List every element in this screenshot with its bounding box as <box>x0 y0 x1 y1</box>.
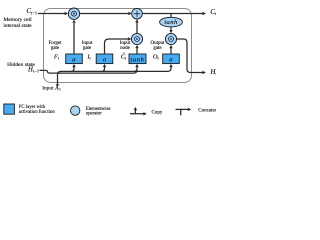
wire input gate box up and right into product <box>105 39 129 54</box>
svg-text:tanh: tanh <box>131 57 145 64</box>
svg-text:gate: gate <box>83 46 92 51</box>
input node FC box (tanh) <box>129 54 146 64</box>
riser into input gate box <box>102 67 105 72</box>
svg-text:Ht: Ht <box>209 68 216 76</box>
svg-text:tanh: tanh <box>164 19 178 26</box>
svg-text:operator: operator <box>86 112 102 117</box>
LSTM cell boundary box <box>44 9 192 83</box>
svg-text:gate: gate <box>153 46 162 51</box>
elementwise sum on C line <box>132 8 143 19</box>
svg-text:Copy: Copy <box>152 111 163 116</box>
wire product up into sum <box>136 23 138 34</box>
riser into output gate box <box>168 67 172 72</box>
wire input node box up to product <box>136 48 138 54</box>
wire output gate box up to product <box>170 48 172 54</box>
riser into forget gate box <box>71 67 74 72</box>
svg-text:gate: gate <box>51 46 60 51</box>
tanh ellipse <box>160 17 183 27</box>
svg-text:activation function: activation function <box>19 110 56 115</box>
branch from C line down to tanh <box>170 14 172 18</box>
wire tanh down to output product <box>170 27 172 30</box>
wire forget gate box up to product on C line <box>73 23 75 54</box>
svg-text:node: node <box>120 46 131 51</box>
wire product to sum <box>80 13 129 15</box>
wire C_{t-1} into forget product <box>38 13 65 15</box>
elementwise product (output) <box>165 33 176 44</box>
legend FC box icon <box>4 104 15 114</box>
svg-text:Input Xt: Input Xt <box>42 83 61 91</box>
svg-text:Concatenate: Concatenate <box>198 108 216 113</box>
output gate FC box <box>163 54 180 64</box>
elementwise product (input gate x input node) <box>131 33 142 44</box>
wire H_t output <box>177 39 203 73</box>
wire input X_t riser and main bus <box>58 71 168 85</box>
input gate FC box <box>96 54 113 64</box>
riser into input node box <box>134 67 137 72</box>
elementwise product (forget) on C line <box>68 8 79 19</box>
legend elementwise circle icon <box>71 106 80 115</box>
legend concatenate icon <box>176 108 189 110</box>
svg-text:internal state: internal state <box>3 23 32 29</box>
wire sum to C_t output <box>142 13 202 15</box>
forget gate FC box <box>66 54 83 64</box>
legend copy icon <box>130 110 144 114</box>
wire hidden state entry diving to lower bus and merging into input node riser <box>40 70 138 73</box>
